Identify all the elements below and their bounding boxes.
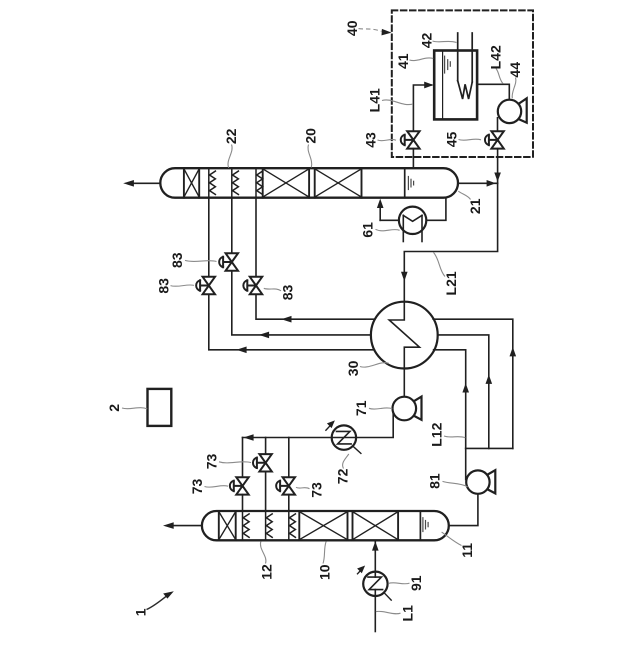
wire header down to pump 81	[465, 448, 467, 479]
wire heater 61 left pipe	[380, 219, 399, 221]
svg-text:22: 22	[223, 128, 239, 144]
arrowhead into junction right	[487, 180, 496, 187]
exchanger 72	[332, 425, 356, 449]
exchanger 91 drain tail	[384, 593, 391, 600]
wire strip 22c down to valve 83c	[255, 198, 257, 278]
leader 22	[228, 145, 232, 168]
leader 11	[442, 532, 462, 545]
wire riser 73c	[288, 438, 290, 478]
leader L21	[433, 252, 445, 276]
leader 72	[343, 454, 349, 469]
leader 83b	[185, 260, 217, 261]
svg-text:40: 40	[344, 20, 360, 36]
tank 41 liquid level ticks	[445, 56, 451, 73]
column 10 sump divider	[419, 511, 421, 540]
column 20 overhead outlet wire right	[458, 182, 498, 184]
wire valve 73a to column 10	[242, 495, 244, 511]
arrowhead outlet left bottom	[163, 522, 174, 529]
svg-text:L42: L42	[487, 45, 503, 69]
pump 81 flare	[487, 470, 495, 493]
leader L42	[496, 69, 503, 84]
svg-text:81: 81	[427, 473, 443, 489]
wire L21 main	[404, 183, 497, 301]
svg-text:30: 30	[345, 360, 361, 376]
svg-text:20: 20	[302, 128, 318, 144]
exchanger 30	[371, 302, 438, 369]
svg-text:12: 12	[259, 564, 275, 580]
column 20 spray strip 22a	[209, 168, 216, 198]
leader 42	[433, 41, 457, 43]
leader 83c	[264, 288, 281, 291]
exchanger 91 duty arrow	[357, 566, 365, 574]
column 20 liquid level ticks	[408, 177, 413, 190]
wire feed L1	[374, 596, 376, 632]
valve 83b	[219, 253, 238, 270]
pump 81	[466, 470, 489, 493]
valve 83c	[243, 277, 262, 294]
arrowhead down into junction	[494, 173, 501, 182]
leader 91	[388, 583, 409, 584]
exchanger 30 tube zigzag	[389, 302, 419, 368]
wire valve 45 down to junction	[497, 149, 499, 184]
arrowhead left on middle left wire	[259, 332, 269, 339]
svg-text:45: 45	[444, 132, 460, 148]
svg-text:71: 71	[353, 400, 369, 416]
leader 40 (dashed)	[359, 29, 382, 32]
valve 43	[401, 131, 420, 148]
column 20 bed divider X-box left	[184, 168, 199, 198]
exchanger 72 drain tail	[354, 447, 361, 454]
svg-text:61: 61	[359, 222, 375, 238]
leader arrow for 1	[147, 595, 169, 610]
svg-text:83: 83	[279, 285, 295, 301]
valve 73c	[276, 477, 295, 494]
svg-text:91: 91	[408, 575, 424, 591]
wire pump 71 outlet to exchanger 72	[356, 412, 393, 438]
exchanger 91	[363, 572, 387, 596]
wire strip 22b down to valve 83b	[231, 198, 233, 254]
wire exchanger 30 lower left outlet to valve 83a riser	[209, 294, 374, 350]
wire exchanger 30 middle left outlet to valve 83b riser	[232, 271, 371, 335]
column 10 spray strip 12c	[289, 511, 296, 540]
svg-text:1: 1	[133, 608, 149, 616]
leader 45	[459, 139, 482, 140]
exchanger 72 zigzag	[337, 431, 352, 444]
heater 61 tube stubs	[403, 215, 422, 241]
svg-text:43: 43	[363, 132, 379, 148]
leader L12	[444, 436, 465, 438]
wire exchanger 30 to pump 71	[403, 368, 405, 396]
arrowhead left on transfer header	[243, 434, 253, 441]
svg-text:73: 73	[309, 482, 325, 498]
valve 73a	[230, 477, 249, 494]
svg-text:42: 42	[419, 33, 435, 49]
arrowhead up on riser x489	[486, 375, 493, 384]
column 20 shell	[160, 168, 458, 198]
valve 83a	[196, 277, 215, 294]
leader 10	[323, 541, 326, 563]
column 10 packing X-section 1	[299, 511, 347, 540]
leader 30	[360, 363, 389, 367]
svg-text:41: 41	[395, 53, 411, 69]
leader 73c	[296, 487, 310, 489]
pump 71 flare	[413, 397, 421, 420]
svg-text:2: 2	[106, 404, 122, 412]
leader 83a	[171, 285, 195, 286]
wire transfer header to exchanger 72	[243, 437, 332, 439]
column 10 liquid level ticks	[423, 518, 428, 532]
column 20 packing X-section 1	[263, 168, 309, 198]
arrowhead left on lower left wire	[236, 347, 246, 354]
wire exchanger 91 to column 10	[374, 540, 376, 571]
tank 41	[434, 51, 477, 120]
wire L41 from valve 43 to tank	[413, 85, 431, 131]
exchanger 72 duty arrow	[326, 420, 335, 430]
column 20 spray strip 22b	[232, 168, 239, 198]
leader L1	[376, 611, 401, 613]
column 10 shell	[202, 511, 449, 540]
wire pump 44 to valve 45	[497, 118, 499, 131]
leader 12	[260, 541, 265, 563]
leader 41	[410, 58, 434, 61]
wire valve 73c to column 10	[288, 495, 290, 511]
svg-text:10: 10	[316, 564, 332, 580]
svg-text:21: 21	[467, 198, 483, 214]
arrowhead left on upper left wire	[281, 316, 291, 323]
column 10 spray strip 12b	[266, 511, 273, 540]
svg-text:44: 44	[507, 62, 523, 78]
wire exchanger 30 upper right to riser	[433, 319, 513, 448]
leader L41	[382, 100, 413, 105]
tank 41 inner wall line	[442, 51, 444, 119]
svg-text:73: 73	[203, 454, 219, 470]
wire L42 tank to pump 44	[477, 84, 509, 99]
wire heater 61 right pipe	[426, 198, 446, 221]
arrowhead up into column 20 bottom	[377, 199, 384, 208]
wire column 10 bottoms to pump 81	[449, 494, 478, 526]
dashed enclosure 40	[392, 10, 533, 157]
wire exchanger 30 upper left outlet to valve 83c riser	[256, 294, 375, 319]
wire riser 73b	[265, 438, 267, 455]
exchanger 91 tube stubs	[374, 572, 376, 578]
valve 73b	[253, 454, 272, 471]
column 20 spray strip 22c	[256, 168, 263, 198]
column 10 spray strip 12a	[243, 511, 250, 540]
leader 81	[443, 481, 468, 486]
leader 44	[512, 78, 516, 99]
wire junction header above pump 81	[466, 447, 513, 449]
column 20 outlet wire left	[134, 182, 161, 184]
wire valve 43 down to column 20	[412, 149, 414, 169]
arrowhead for 40 pointer	[382, 29, 392, 36]
svg-text:11: 11	[459, 543, 475, 558]
dip tube 42 into tank	[458, 33, 473, 99]
leader 71	[369, 408, 392, 409]
pump 44 flare	[518, 98, 526, 122]
wire reboiler riser with arrow into column 20	[379, 206, 381, 221]
leader 73b	[219, 462, 251, 463]
arrowhead outlet left	[123, 180, 134, 187]
wire strip 22a down to valve 83a	[208, 198, 210, 278]
svg-text:72: 72	[335, 468, 351, 484]
column 20 packing X-section 2	[315, 168, 362, 198]
pump 44	[498, 100, 521, 123]
svg-text:L12: L12	[429, 422, 445, 446]
wire valve 73b to column 10	[265, 472, 267, 512]
leader 20	[308, 145, 312, 168]
arrowhead L21 down into exchanger 30	[401, 272, 408, 281]
svg-text:L21: L21	[443, 271, 459, 295]
svg-text:83: 83	[169, 252, 185, 268]
exchanger 91 zigzag	[368, 577, 383, 590]
leader 2	[122, 408, 147, 409]
arrowhead up on riser x513	[510, 347, 517, 356]
column 20 sump divider	[404, 168, 406, 198]
arrowhead up on riser L12	[462, 383, 469, 392]
heater 61	[399, 207, 426, 234]
arrowhead into tank 41	[424, 82, 433, 89]
leader 61	[376, 229, 400, 231]
valve 45	[485, 131, 504, 148]
exchanger 30 tube inlet	[403, 302, 405, 321]
wire exchanger 30 lower right to riser L12	[434, 350, 466, 449]
column 10 outlet wire left	[174, 525, 202, 527]
box 2	[148, 389, 172, 426]
column 10 X-box left	[219, 511, 236, 540]
arrowhead up into column 10	[372, 541, 379, 550]
svg-text:83: 83	[155, 278, 171, 294]
svg-text:73: 73	[189, 479, 205, 495]
wire header corner down to valve 73a	[242, 438, 244, 478]
exchanger 72 tube line	[332, 437, 356, 439]
svg-text:L1: L1	[399, 605, 415, 622]
svg-text:L41: L41	[367, 88, 383, 112]
leader 21	[458, 191, 470, 199]
pump 71	[393, 397, 417, 421]
leader 73a	[205, 486, 229, 488]
wire exchanger 30 middle right to riser	[438, 335, 489, 449]
column 10 packing X-section 2	[353, 511, 399, 540]
leader 43	[378, 139, 397, 140]
